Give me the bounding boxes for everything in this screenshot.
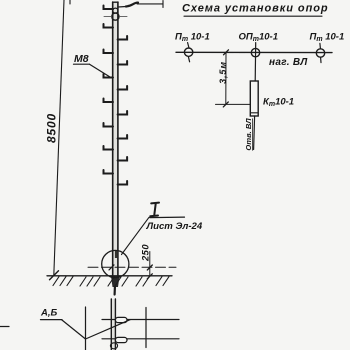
svg-text:3,5м: 3,5м (218, 61, 228, 84)
svg-text:наг. ВЛ: наг. ВЛ (269, 57, 308, 68)
svg-text:8500: 8500 (45, 113, 59, 143)
svg-text:Отв. ВЛ: Отв. ВЛ (244, 118, 253, 151)
svg-text:Кт10-1: Кт10-1 (263, 97, 294, 109)
svg-text:Схема установки опор: Схема установки опор (182, 3, 329, 15)
svg-text:Пт 10-1: Пт 10-1 (310, 32, 345, 44)
svg-text:А,Б: А,Б (40, 308, 58, 319)
svg-text:М8: М8 (74, 53, 89, 65)
svg-text:Пт 10-1: Пт 10-1 (175, 32, 210, 44)
svg-text:ОПт10-1: ОПт10-1 (239, 32, 278, 44)
svg-text:250: 250 (140, 244, 150, 262)
svg-text:Лист Эл-24: Лист Эл-24 (146, 221, 203, 232)
